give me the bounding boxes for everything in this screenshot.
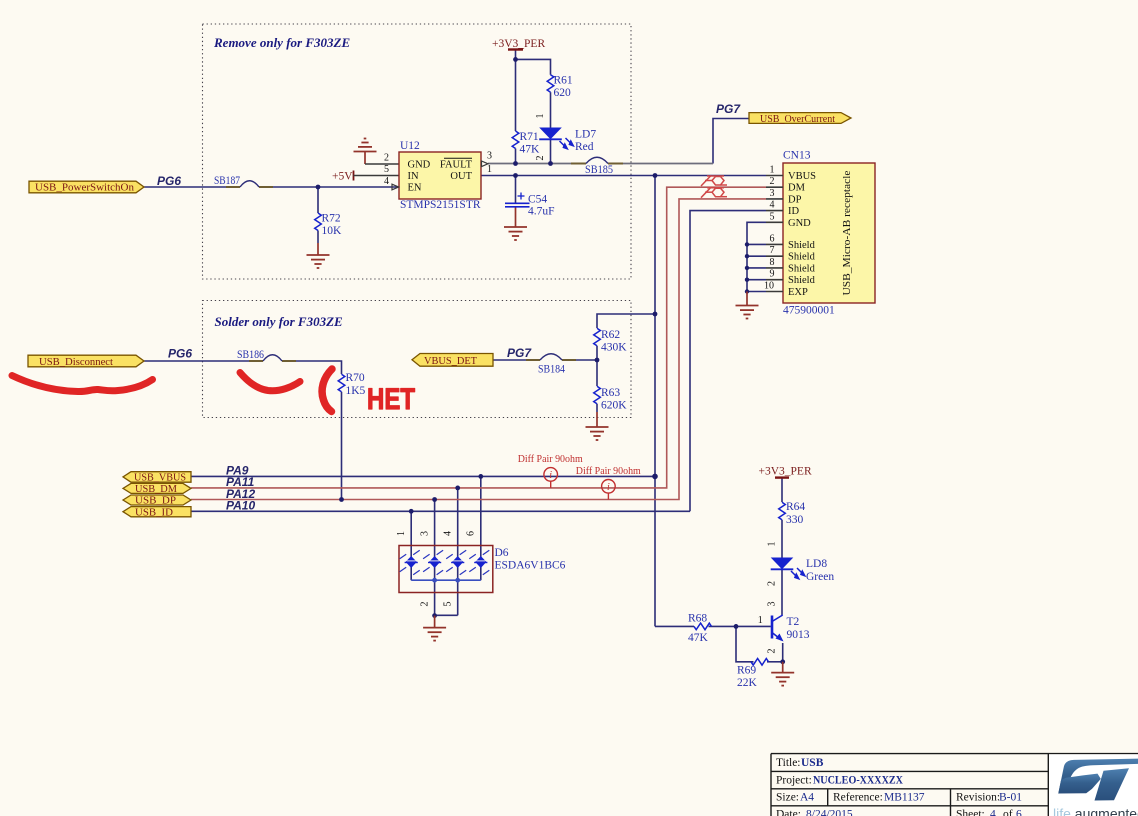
svg-text:VBUS_DET: VBUS_DET	[424, 356, 477, 367]
svg-text:PG6: PG6	[157, 174, 181, 188]
svg-text:2: 2	[767, 581, 778, 586]
svg-text:LD8: LD8	[806, 558, 827, 570]
svg-text:Shield: Shield	[788, 252, 816, 263]
svg-text:8/24/2015: 8/24/2015	[806, 809, 853, 816]
svg-text:ESDA6V1BC6: ESDA6V1BC6	[495, 560, 566, 572]
svg-text:2: 2	[767, 649, 778, 654]
svg-text:Diff Pair 90ohm: Diff Pair 90ohm	[576, 465, 641, 477]
svg-text:Project:: Project:	[776, 775, 812, 787]
svg-text:USB_OverCurrent: USB_OverCurrent	[760, 114, 835, 125]
svg-text:5: 5	[384, 164, 389, 175]
svg-text:2: 2	[535, 156, 546, 161]
svg-text:B-01: B-01	[999, 792, 1022, 804]
svg-text:USB_Disconnect: USB_Disconnect	[39, 357, 113, 368]
svg-text:6: 6	[466, 531, 477, 536]
svg-text:USB_Micro-AB receptacle: USB_Micro-AB receptacle	[842, 170, 853, 295]
svg-text:USB_DM: USB_DM	[135, 484, 177, 495]
svg-text:R71: R71	[520, 131, 539, 143]
svg-text:EN: EN	[408, 183, 422, 194]
svg-text:R68: R68	[688, 613, 707, 625]
svg-text:+3V3_PER: +3V3_PER	[492, 38, 545, 50]
svg-text:ID: ID	[788, 206, 799, 217]
svg-text:10: 10	[764, 281, 774, 292]
svg-text:Reference:: Reference:	[833, 792, 883, 804]
svg-text:3: 3	[770, 188, 775, 199]
svg-text:1: 1	[770, 165, 775, 176]
svg-text:5: 5	[770, 211, 775, 222]
svg-text:1: 1	[396, 531, 407, 536]
svg-text:НЕТ: НЕТ	[367, 381, 415, 415]
svg-text:USB_ID: USB_ID	[135, 507, 173, 518]
svg-text:Shield: Shield	[788, 240, 816, 251]
svg-text:SB186: SB186	[237, 349, 264, 361]
svg-text:22K: 22K	[737, 677, 758, 689]
svg-text:Green: Green	[806, 571, 834, 583]
svg-text:4: 4	[770, 200, 775, 211]
svg-text:R63: R63	[601, 387, 620, 399]
svg-text:USB_PowerSwitchOn: USB_PowerSwitchOn	[35, 183, 134, 194]
svg-text:Size:: Size:	[776, 792, 799, 804]
svg-text:PG7: PG7	[716, 102, 741, 116]
svg-text:620: 620	[554, 87, 572, 99]
svg-text:GND: GND	[788, 218, 811, 229]
svg-text:of: of	[1003, 809, 1013, 816]
svg-text:GND: GND	[408, 159, 431, 170]
svg-text:FAULT: FAULT	[440, 159, 473, 170]
svg-text:Diff Pair 90ohm: Diff Pair 90ohm	[518, 453, 583, 465]
svg-text:STMPS2151STR: STMPS2151STR	[400, 199, 481, 211]
svg-text:LD7: LD7	[575, 129, 596, 141]
svg-text:3: 3	[487, 151, 492, 162]
svg-text:1: 1	[487, 164, 492, 175]
svg-text:1: 1	[767, 542, 778, 547]
svg-text:R61: R61	[554, 75, 573, 87]
svg-text:DP: DP	[788, 194, 802, 205]
svg-text:1K5: 1K5	[346, 385, 366, 397]
svg-text:Sheet:: Sheet:	[956, 809, 985, 816]
svg-text:+5V: +5V	[332, 171, 353, 183]
svg-text:CN13: CN13	[783, 150, 811, 162]
svg-text:2: 2	[770, 176, 775, 187]
svg-text:USB_VBUS: USB_VBUS	[134, 473, 186, 484]
svg-text:PA10: PA10	[226, 499, 255, 513]
svg-text:9013: 9013	[787, 629, 810, 641]
svg-text:PG7: PG7	[507, 346, 532, 360]
svg-text:8: 8	[770, 257, 775, 268]
svg-text:i: i	[549, 470, 552, 481]
svg-text:430K: 430K	[601, 342, 627, 354]
svg-text:Shield: Shield	[788, 263, 816, 274]
svg-text:R64: R64	[786, 501, 805, 513]
svg-text:Title:: Title:	[776, 757, 801, 769]
svg-text:4: 4	[384, 176, 389, 187]
svg-text:10K: 10K	[322, 225, 343, 237]
svg-text:6: 6	[1016, 809, 1022, 816]
svg-text:SB184: SB184	[538, 364, 565, 376]
svg-text:U12: U12	[400, 140, 420, 152]
svg-text:A4: A4	[800, 792, 814, 804]
svg-text:VBUS: VBUS	[788, 171, 816, 182]
svg-text:Date:: Date:	[776, 809, 801, 816]
svg-text:47K: 47K	[688, 632, 709, 644]
svg-text:R72: R72	[322, 213, 341, 225]
svg-text:3: 3	[767, 602, 778, 607]
svg-text:9: 9	[770, 269, 775, 280]
svg-text:47K: 47K	[520, 144, 541, 156]
svg-text:Shield: Shield	[788, 275, 816, 286]
svg-text:R70: R70	[346, 372, 365, 384]
svg-text:C54: C54	[528, 194, 547, 206]
svg-text:Solder only for F303ZE: Solder only for F303ZE	[215, 314, 344, 329]
svg-text:1: 1	[758, 615, 763, 626]
svg-text:Remove only for F303ZE: Remove only for F303ZE	[213, 35, 350, 50]
svg-text:4: 4	[443, 531, 454, 536]
svg-text:6: 6	[770, 233, 775, 244]
svg-text:+3V3_PER: +3V3_PER	[759, 466, 812, 478]
svg-text:4.7uF: 4.7uF	[528, 206, 555, 218]
svg-text:NUCLEO-XXXXZX: NUCLEO-XXXXZX	[813, 775, 904, 787]
svg-text:7: 7	[770, 245, 775, 256]
svg-text:R69: R69	[737, 665, 756, 677]
svg-text:T2: T2	[787, 616, 800, 628]
svg-text:USB_DP: USB_DP	[135, 496, 176, 507]
svg-text:SB185: SB185	[585, 164, 613, 176]
svg-text:DM: DM	[788, 183, 806, 194]
svg-text:PG6: PG6	[168, 347, 192, 361]
svg-text:R62: R62	[601, 329, 620, 341]
svg-text:475900001: 475900001	[783, 305, 835, 317]
svg-text:330: 330	[786, 514, 804, 526]
svg-text:life.augmented: life.augmented	[1053, 806, 1138, 816]
svg-text:EXP: EXP	[788, 287, 808, 298]
svg-text:i: i	[607, 482, 610, 493]
svg-text:2: 2	[420, 602, 431, 607]
svg-text:4: 4	[990, 809, 996, 816]
svg-text:1: 1	[535, 114, 546, 119]
svg-text:2: 2	[384, 153, 389, 164]
svg-text:620K: 620K	[601, 400, 627, 412]
svg-text:USB: USB	[801, 757, 824, 769]
svg-text:OUT: OUT	[450, 171, 472, 182]
svg-text:Revision:: Revision:	[956, 792, 1000, 804]
svg-text:IN: IN	[408, 171, 419, 182]
svg-text:Red: Red	[575, 141, 594, 153]
svg-text:SB187: SB187	[214, 175, 240, 187]
svg-text:5: 5	[443, 602, 454, 607]
svg-text:3: 3	[420, 531, 431, 536]
svg-text:D6: D6	[495, 547, 509, 559]
svg-text:MB1137: MB1137	[884, 792, 925, 804]
